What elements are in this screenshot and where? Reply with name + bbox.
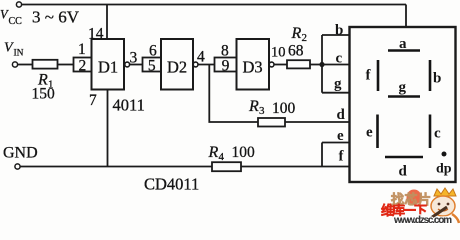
svg-text:D1: D1 (98, 58, 118, 77)
svg-text:dp: dp (436, 162, 452, 177)
wire R2 to junction (310, 64, 322, 66)
svg-text:f: f (339, 149, 345, 165)
junction dot at R2 output (319, 62, 324, 67)
segment b (429, 60, 432, 91)
wire bracket e f (321, 143, 323, 167)
wire bracket b c g (321, 35, 323, 93)
resistor R2 (287, 60, 310, 68)
wire to e (322, 142, 350, 144)
svg-text:3 ~ 6V: 3 ~ 6V (32, 8, 80, 27)
terminal VIN (12, 62, 17, 67)
wire to g (322, 92, 350, 94)
svg-text:1: 1 (78, 41, 86, 58)
pin 5 box (143, 58, 162, 72)
gate D2 (161, 39, 193, 90)
segment c (429, 115, 432, 149)
svg-text:d: d (337, 107, 346, 123)
resistor R1 (33, 60, 58, 69)
gate D3 (237, 39, 270, 90)
svg-text:g: g (399, 80, 407, 96)
wire R4 to display f (241, 166, 350, 168)
svg-text:4011: 4011 (113, 96, 145, 115)
svg-text:R: R (208, 144, 219, 161)
svg-text:9: 9 (222, 58, 230, 75)
svg-text:V: V (4, 41, 14, 56)
wire VCC rail (22, 4, 406, 6)
svg-text:100: 100 (272, 100, 296, 117)
svg-text:d: d (399, 164, 408, 180)
wire D2 to D3 (198, 64, 215, 66)
svg-text:a: a (399, 36, 407, 52)
wire D1 to D2 (130, 64, 143, 66)
svg-text:7: 7 (89, 92, 97, 109)
terminal GND (15, 164, 20, 169)
wire to c (322, 64, 350, 66)
segment g (388, 95, 420, 98)
svg-text:CD4011: CD4011 (144, 175, 199, 194)
segment d (385, 156, 423, 159)
svg-text:e: e (337, 128, 344, 144)
svg-text:68: 68 (288, 43, 304, 60)
svg-text:2: 2 (79, 58, 87, 75)
svg-text:4: 4 (219, 151, 225, 163)
svg-text:www.dzsc.com: www.dzsc.com (393, 215, 452, 226)
segment f (377, 60, 380, 91)
svg-text:R: R (248, 98, 259, 115)
wire R3 to d (285, 121, 350, 123)
svg-text:b: b (433, 71, 441, 87)
svg-text:b: b (335, 23, 343, 39)
pin 2 box (74, 58, 92, 72)
wire D3 to R2 (274, 64, 287, 66)
svg-text:e: e (366, 125, 373, 141)
svg-text:g: g (334, 76, 342, 92)
watermark faded text (381, 190, 452, 227)
decimal point dp (442, 152, 447, 157)
pin 4 bubble (193, 62, 198, 67)
pin 10 bubble (269, 62, 274, 67)
svg-text:c: c (434, 126, 441, 142)
wire VIN to R1 (18, 64, 33, 66)
svg-text:CC: CC (9, 16, 23, 27)
wire branch down to R3 (209, 65, 258, 123)
svg-text:3: 3 (130, 50, 138, 67)
svg-text:4: 4 (197, 49, 205, 66)
svg-text:10: 10 (271, 45, 286, 61)
svg-text:IN: IN (14, 49, 24, 59)
gate D1 (92, 39, 125, 90)
segment e (376, 115, 379, 149)
svg-text:150: 150 (32, 86, 56, 103)
svg-text:GND: GND (3, 145, 38, 162)
svg-text:D2: D2 (167, 58, 187, 77)
wire D1 pin 7 to GND rail (107, 90, 109, 167)
wire to b (322, 34, 350, 36)
wire VCC to D1 pin 14 (106, 5, 108, 40)
svg-text:D3: D3 (243, 58, 263, 77)
resistor R4 (212, 162, 241, 171)
svg-text:R: R (291, 25, 302, 42)
display box (350, 27, 456, 182)
svg-text:14: 14 (88, 26, 104, 43)
terminal VCC (16, 2, 21, 7)
segment a (388, 49, 420, 52)
svg-text:3: 3 (259, 105, 265, 117)
svg-text:c: c (336, 51, 343, 67)
wire GND to R4 (20, 166, 212, 168)
svg-text:100: 100 (232, 144, 256, 161)
watermark mascot (425, 188, 459, 223)
resistor R3 (258, 118, 285, 127)
pin 3 bubble (125, 62, 130, 67)
pin 9 box (215, 58, 237, 72)
wire R1 to D1 pin 2 (58, 64, 74, 66)
wire VCC down to display (405, 5, 407, 28)
svg-text:f: f (366, 68, 372, 84)
svg-text:5: 5 (148, 58, 156, 75)
